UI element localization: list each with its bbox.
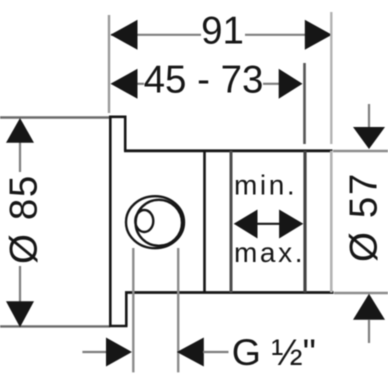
min-max double arrow shaft [255,223,282,225]
arrow G half inch pointing right [106,338,132,367]
valve wall plate left edge [109,116,112,328]
G half inch extension line left [132,248,134,372]
arrow G half inch pointing left [177,338,204,367]
extension line bottom for dia 57 [334,292,388,294]
dimension line 91 [111,34,305,36]
arrow 91 left [111,20,138,50]
label 45 - 73 [144,59,264,102]
sleeve left edge (min-max section) [230,151,233,293]
sleeve right edge (min-max section) [303,151,306,293]
G half inch extension line right [177,248,179,372]
wall plate right edge lower [125,293,128,327]
svg-text:91: 91 [201,10,244,53]
label dia 85 (rotated) [3,174,46,264]
svg-text:Ø 85: Ø 85 [3,174,46,264]
arrow 91 right [305,20,332,50]
arrow dia85 up [6,118,34,143]
wall plate top edge [109,116,127,119]
label G 1/2 inch [232,331,316,373]
extension line left (shared by 91 and 45-73 dims) [108,15,110,113]
wall plate bottom edge [109,325,128,328]
extension line right of 91 dim [330,12,332,144]
valve body right edge of main block [203,151,206,293]
dimension line 45-73 [137,83,279,85]
extension line bottom for dia 85 [0,325,110,327]
label min. [234,169,297,200]
dimension line dia 85 [19,142,21,302]
arrow dia57 down [353,127,385,149]
arrow 45-73 right [279,69,303,99]
arrow 45-73 left [111,69,138,99]
handle hub inner circle [136,200,182,246]
dia 57 dim stub bottom [368,320,370,343]
valve body bottom shoulder [125,291,334,294]
label 91 [201,10,244,53]
svg-text:45 - 73: 45 - 73 [144,59,264,102]
svg-text:max.: max. [234,237,305,268]
svg-text:min.: min. [234,169,297,200]
extension line top for dia 85 [0,116,110,118]
label dia 57 (rotated) [343,172,386,262]
G half inch dim tail left [82,351,107,353]
extension line right of 45-73 dim [303,63,306,144]
extension line top for dia 57 [333,150,388,152]
valve body top shoulder [124,149,333,152]
svg-text:Ø 57: Ø 57 [343,172,386,262]
label max. [234,237,305,268]
wall plate right edge upper [124,117,127,151]
svg-text:G ½": G ½" [232,331,316,373]
handle hub small circle [135,210,153,232]
handle hub outer circle [126,196,184,248]
G half inch dim tail right [203,351,229,353]
arrow dia85 down [6,301,34,327]
arrow dia57 up [353,294,385,320]
min-max arrow right [279,210,303,239]
min-max arrow left [234,210,258,239]
dia 57 dim stub top [368,104,370,127]
body end cap right edge [330,151,333,293]
